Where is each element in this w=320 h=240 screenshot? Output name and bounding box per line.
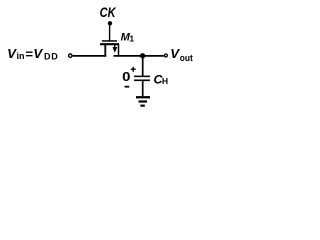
clock terminal dot xyxy=(108,21,112,25)
svg-text:CK: CK xyxy=(100,4,117,20)
ground xyxy=(136,97,150,105)
terminal input circle xyxy=(69,54,72,57)
svg-text:out: out xyxy=(180,53,194,64)
junction node xyxy=(140,53,145,58)
svg-text:1: 1 xyxy=(129,34,134,44)
wire output segment xyxy=(114,55,164,57)
svg-text:=: = xyxy=(25,47,33,62)
svg-text:H: H xyxy=(162,76,168,86)
svg-text:DD: DD xyxy=(44,51,59,61)
transistor M1 xyxy=(100,41,119,57)
capacitor CH xyxy=(134,56,150,96)
polarity minus xyxy=(125,86,130,88)
svg-text:V: V xyxy=(33,46,43,61)
polarity plus xyxy=(131,67,136,72)
svg-text:V: V xyxy=(170,46,180,61)
svg-text:in: in xyxy=(17,51,25,61)
svg-text:0: 0 xyxy=(122,69,131,84)
wire input segment xyxy=(73,55,107,57)
wire gate vertical xyxy=(109,23,111,41)
terminal output circle xyxy=(164,54,167,57)
